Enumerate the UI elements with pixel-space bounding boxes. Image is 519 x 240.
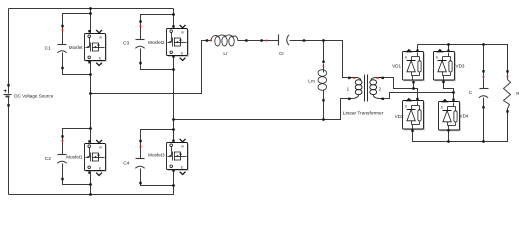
svg-text:m: m xyxy=(99,36,102,40)
svg-text:E: E xyxy=(405,56,407,60)
svg-text:Cr: Cr xyxy=(279,51,284,57)
svg-text:Mosfet1: Mosfet1 xyxy=(66,154,83,159)
svg-text:Mosfet2: Mosfet2 xyxy=(148,40,165,45)
svg-text:C1: C1 xyxy=(45,45,51,51)
svg-text:m: m xyxy=(181,31,184,35)
svg-text:1: 1 xyxy=(347,86,350,91)
svg-text:C: C xyxy=(469,90,473,96)
svg-text:E: E xyxy=(436,56,438,60)
svg-text:DC Voltage Source: DC Voltage Source xyxy=(14,94,54,99)
svg-text:VD4: VD4 xyxy=(460,114,469,119)
svg-text:Mosfet: Mosfet xyxy=(69,45,84,50)
svg-text:E: E xyxy=(441,106,443,110)
svg-text:C2: C2 xyxy=(45,156,51,162)
svg-text:VD3: VD3 xyxy=(456,64,465,69)
svg-text:C3: C3 xyxy=(123,41,129,47)
svg-text:VD1: VD1 xyxy=(392,64,401,69)
svg-text:C4: C4 xyxy=(123,160,129,166)
svg-text:2: 2 xyxy=(379,86,382,91)
svg-text:E: E xyxy=(405,105,407,109)
svg-text:Mosfet3: Mosfet3 xyxy=(148,152,165,157)
svg-text:VD2: VD2 xyxy=(395,114,404,119)
svg-text:Linear Transformer: Linear Transformer xyxy=(343,111,384,117)
svg-text:m: m xyxy=(99,146,102,150)
svg-text:m: m xyxy=(181,145,184,149)
svg-text:Lr: Lr xyxy=(223,51,228,57)
svg-text:Lm: Lm xyxy=(308,79,315,85)
